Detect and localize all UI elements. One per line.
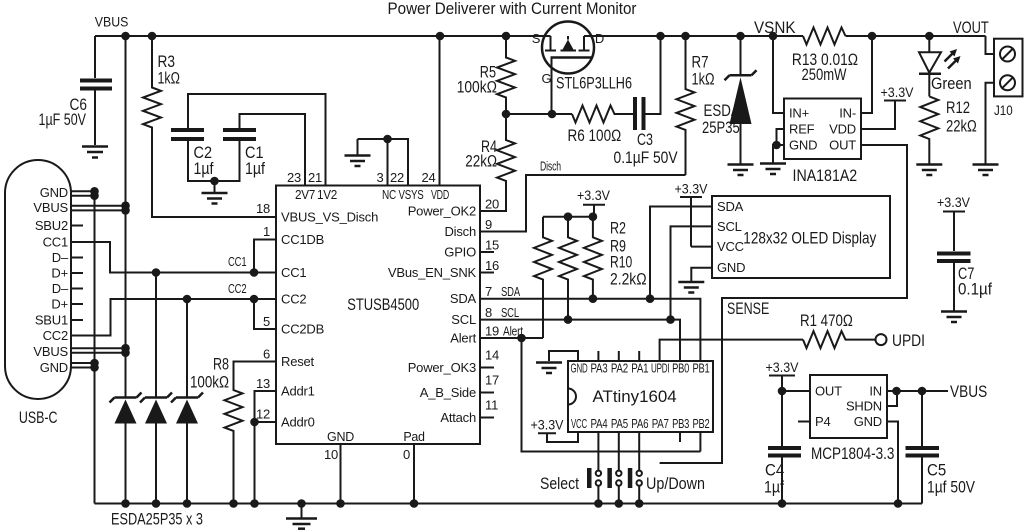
junction (670.5,319.6): [666, 315, 675, 324]
svg-text:VCC: VCC: [571, 417, 587, 431]
connector J10: [994, 39, 1023, 97]
junction (896.5,391): [892, 387, 901, 396]
connector J? USB-C body: [5, 160, 71, 399]
svg-text:2.2kΩ: 2.2kΩ: [610, 271, 647, 289]
wire ATtiny GND to ground: [549, 351, 578, 361]
junction (152,36): [148, 32, 157, 41]
wire OUT: [782, 390, 810, 392]
svg-text:15: 15: [485, 238, 499, 253]
junction (568,216.7): [564, 212, 573, 221]
junction (568,319.6): [564, 315, 573, 324]
svg-text:Pad: Pad: [403, 430, 425, 444]
junction (187,503.5): [183, 499, 192, 508]
wire pullup top: [543, 216, 594, 218]
svg-text:VBUS: VBUS: [95, 14, 129, 30]
junction (592.9,216.7): [589, 212, 598, 221]
svg-text:Power Deliverer with Current M: Power Deliverer with Current Monitor: [388, 0, 637, 18]
svg-text:Alert: Alert: [450, 331, 476, 346]
junction (872,36): [868, 32, 877, 41]
wire gate node: [506, 113, 572, 115]
svg-text:VBUS_VS_Disch: VBUS_VS_Disch: [281, 210, 378, 225]
svg-text:C5: C5: [927, 462, 946, 480]
svg-text:C4: C4: [765, 462, 784, 480]
junction (618.8,503.5): [615, 499, 624, 508]
LED D5 Green: [928, 36, 930, 52]
svg-text:CC2: CC2: [43, 328, 68, 343]
op-amp U? STUSB4500 box: [276, 186, 480, 445]
svg-text:R10: R10: [610, 254, 632, 272]
junction (660.5,36): [656, 32, 665, 41]
svg-text:+3.3V: +3.3V: [531, 417, 565, 433]
svg-text:CC1: CC1: [43, 235, 68, 250]
svg-text:24: 24: [421, 170, 435, 185]
junction (233.5,503.5): [229, 499, 238, 508]
svg-text:1kΩ: 1kΩ: [158, 70, 181, 88]
svg-text:Attach: Attach: [440, 410, 476, 425]
resistor R5: [497, 36, 515, 114]
junction VBUS pins: [121, 201, 130, 210]
svg-text:0.1µF 50V: 0.1µF 50V: [614, 149, 678, 167]
wire net CC2: [71, 299, 276, 336]
wire MCP GND: [887, 422, 898, 504]
diode D3 ESDA25P35 (CC2): [186, 299, 188, 398]
svg-text:P4: P4: [815, 414, 831, 429]
LED arrows: [945, 53, 954, 62]
svg-text:VBUS: VBUS: [950, 383, 987, 401]
resistor R12: [920, 96, 938, 163]
svg-text:VDD: VDD: [829, 122, 856, 137]
svg-text:STL6P3LLH6: STL6P3LLH6: [556, 75, 632, 93]
svg-text:+3.3V: +3.3V: [577, 187, 611, 203]
pin D+ stub: [71, 303, 83, 305]
svg-text:VBUS: VBUS: [33, 200, 68, 215]
junction (898,503.5): [894, 499, 903, 508]
svg-text:SBU2: SBU2: [35, 218, 68, 233]
svg-text:VSNK: VSNK: [754, 19, 796, 37]
capacitor C1: [240, 114, 306, 186]
wire CC2DB bracket: [254, 299, 276, 329]
svg-text:CC1DB: CC1DB: [281, 232, 324, 247]
svg-text:Select: Select: [540, 475, 579, 493]
junction (254,299): [250, 295, 259, 304]
capacitor C2: [188, 94, 326, 186]
svg-text:IN-: IN-: [839, 106, 856, 121]
junction (740.5,36): [736, 32, 745, 41]
pin D- stub: [71, 288, 83, 290]
resistor R2: [534, 217, 552, 338]
svg-text:REF: REF: [789, 122, 815, 137]
svg-text:VSYS: VSYS: [399, 188, 424, 202]
svg-text:16: 16: [485, 258, 499, 273]
ground (J10): [973, 163, 999, 166]
resistor R3: [143, 36, 276, 217]
wire SCL bus: [480, 320, 680, 361]
junction (552,114): [548, 110, 557, 119]
svg-text:D+: D+: [51, 266, 68, 281]
svg-text:GND: GND: [854, 414, 882, 429]
svg-text:14: 14: [485, 348, 499, 363]
wire VBUS top rail: [95, 35, 986, 37]
svg-text:7: 7: [485, 284, 492, 299]
pin 15 GPIO stub: [480, 251, 494, 253]
svg-text:128x32 OLED Display: 128x32 OLED Display: [743, 230, 877, 248]
svg-text:ESDA: ESDA: [704, 102, 740, 120]
svg-text:PA6: PA6: [631, 417, 648, 431]
transistor Q1 STL6P3LLH6: [542, 22, 594, 74]
svg-text:NC: NC: [382, 188, 396, 202]
terminal UPDI: [876, 334, 887, 345]
junction (187,299): [183, 295, 192, 304]
junction (125.5,210.4): [121, 206, 130, 215]
pin 22 VSYS: [358, 139, 409, 186]
resistor R7: [677, 36, 695, 175]
svg-text:PA3: PA3: [591, 362, 608, 376]
junction (773,36): [769, 32, 778, 41]
svg-text:CC2: CC2: [228, 281, 247, 296]
wire IN+ to VSNK: [773, 36, 784, 113]
svg-text:10: 10: [324, 447, 338, 462]
svg-text:ATtiny1604: ATtiny1604: [593, 388, 677, 406]
pin 11 Attach stub: [480, 417, 494, 419]
svg-text:Disch: Disch: [540, 159, 561, 174]
svg-text:1µF 50V: 1µF 50V: [39, 111, 87, 129]
svg-text:22kΩ: 22kΩ: [946, 118, 977, 136]
svg-text:PA7: PA7: [652, 417, 669, 431]
capacitor C7: [937, 254, 971, 262]
pin 0 Pad bottom: [413, 444, 415, 504]
svg-text:IN+: IN+: [789, 106, 809, 121]
svg-text:G: G: [542, 71, 552, 86]
svg-text:INA181A2: INA181A2: [793, 167, 858, 185]
svg-text:0.1µf: 0.1µf: [958, 281, 992, 299]
junction (685.5,36): [681, 32, 690, 41]
diode D2 ESDA25P35 (CC1): [155, 273, 157, 398]
wire OLED GND: [691, 268, 712, 281]
junction (254.5,503.5): [250, 499, 259, 508]
ground (INA GND): [760, 162, 786, 165]
svg-text:PA2: PA2: [611, 362, 628, 376]
resistor R9: [559, 217, 577, 320]
ground (ATtiny): [536, 361, 562, 364]
junction GND pins: [90, 187, 99, 196]
resistor R8: [225, 362, 277, 504]
svg-text:1µf 50V: 1µf 50V: [927, 479, 975, 497]
svg-text:+3.3V: +3.3V: [937, 194, 971, 210]
svg-text:CC1: CC1: [281, 265, 306, 280]
svg-text:VDD: VDD: [431, 188, 449, 202]
junction (922,391): [918, 387, 927, 396]
capacitor C6: [80, 81, 112, 89]
regulator U4 MCP1804-3.3 box: [810, 375, 887, 438]
wire net CC1: [71, 242, 276, 273]
svg-text:1: 1: [263, 224, 270, 239]
resistor R4: [480, 114, 515, 211]
svg-text:MCP1804-3.3: MCP1804-3.3: [811, 445, 894, 463]
svg-text:UPDI: UPDI: [651, 362, 670, 376]
connector pins USB-C: GND top (double): [71, 191, 95, 195]
ground (OLED): [678, 281, 704, 284]
pin 24 VDD wire: [439, 36, 441, 186]
wire UPDI net: [660, 340, 803, 361]
svg-text:25P35: 25P35: [702, 119, 740, 137]
ground (rail): [301, 504, 303, 518]
svg-text:ESDA25P35 x 3: ESDA25P35 x 3: [111, 511, 203, 529]
op-amp U3 ATtiny1604 box: [568, 361, 713, 432]
svg-text:D–: D–: [52, 250, 69, 265]
svg-text:Addr0: Addr0: [281, 415, 315, 430]
svg-text:SBU1: SBU1: [35, 313, 68, 328]
switch SW1 Select (PA4): [597, 432, 599, 504]
junction (782,391): [778, 387, 787, 396]
svg-text:R7: R7: [692, 54, 709, 72]
svg-text:18: 18: [256, 201, 270, 216]
junction (254,272.5): [250, 268, 259, 277]
pin D- stub: [71, 257, 83, 259]
svg-text:D–: D–: [52, 281, 69, 296]
ground (D4): [728, 163, 754, 166]
wire IN- to rail: [861, 36, 872, 113]
svg-text:17: 17: [485, 373, 499, 388]
svg-text:D: D: [595, 31, 604, 46]
power +3.3V (INA VDD): [861, 101, 906, 130]
svg-text:5: 5: [263, 314, 270, 329]
svg-text:S: S: [532, 31, 541, 46]
pin 3 NC stub: [387, 139, 389, 186]
svg-text:Power_OK3: Power_OK3: [408, 360, 476, 375]
pin 16 VBus_EN_SNK stub: [480, 272, 494, 274]
junction (639.2,503.5): [635, 499, 644, 508]
svg-text:13: 13: [256, 376, 270, 391]
pin VBUS bottom (double): [71, 348, 126, 353]
pin PB3 stub: [679, 432, 681, 442]
capacitor C4: [781, 391, 783, 446]
resistor R1: [803, 331, 876, 348]
svg-text:+3.3V: +3.3V: [881, 84, 915, 100]
junction (340.5,503.5): [336, 499, 345, 508]
pin SBU2 stub: [71, 225, 83, 227]
resistor R10: [584, 217, 602, 299]
svg-text:6: 6: [263, 347, 270, 362]
svg-text:R6 100Ω: R6 100Ω: [568, 127, 622, 145]
wire J10 pin1: [986, 36, 995, 54]
junction Addr: [250, 418, 259, 427]
pin 10 GND bottom: [340, 444, 342, 504]
junction (414,503.5): [410, 499, 419, 508]
junction (650,298.7): [646, 294, 655, 303]
ground (R12): [916, 163, 942, 166]
svg-text:1µf: 1µf: [245, 160, 265, 178]
pin VBUS top (double): [71, 206, 126, 211]
svg-text:SDA: SDA: [450, 291, 477, 306]
svg-text:PB2: PB2: [693, 417, 710, 431]
svg-text:20: 20: [485, 197, 499, 212]
svg-text:3: 3: [376, 170, 383, 185]
svg-text:GND: GND: [571, 362, 588, 376]
svg-text:VBus_EN_SNK: VBus_EN_SNK: [388, 265, 477, 280]
pin PA2 stub: [618, 351, 620, 361]
pin 17 A_B_Side stub: [480, 392, 494, 394]
resistor R6: [572, 106, 634, 123]
svg-text:1V2: 1V2: [317, 188, 337, 202]
svg-text:PA4: PA4: [591, 417, 608, 431]
svg-text:GND: GND: [40, 360, 68, 375]
junction (94.5,195.7): [90, 191, 99, 200]
ground (C1/C2): [214, 181, 216, 192]
svg-text:SCL: SCL: [717, 219, 742, 234]
svg-text:1µf: 1µf: [194, 160, 214, 178]
svg-text:2V7: 2V7: [295, 188, 315, 202]
svg-text:22kΩ: 22kΩ: [465, 153, 497, 171]
svg-text:100kΩ: 100kΩ: [457, 79, 497, 97]
wire VBUS net vertical: [125, 36, 127, 398]
svg-text:J10: J10: [994, 102, 1013, 118]
wire Addr1 to Addr0: [255, 391, 277, 422]
svg-text:Up/Down: Up/Down: [646, 475, 705, 493]
svg-text:R12: R12: [946, 99, 970, 117]
svg-text:+3.3V: +3.3V: [675, 181, 709, 197]
wire OLED SCL: [671, 226, 713, 319]
svg-text:Addr1: Addr1: [281, 384, 315, 399]
svg-text:CC1: CC1: [228, 254, 247, 269]
svg-text:R8: R8: [213, 356, 229, 374]
svg-text:12: 12: [256, 407, 270, 422]
pin 14 Power_OK3 stub: [480, 367, 494, 369]
svg-text:+3.3V: +3.3V: [766, 359, 800, 375]
ground (C7): [941, 310, 967, 313]
svg-text:SDA: SDA: [717, 199, 744, 214]
wire Disch net: [480, 175, 686, 232]
svg-text:VBUS: VBUS: [33, 344, 68, 359]
svg-text:GND: GND: [327, 430, 354, 444]
junction pin3/22: [383, 135, 392, 144]
junction (782,503.5): [778, 499, 787, 508]
svg-text:SCL: SCL: [451, 312, 476, 327]
svg-text:GND: GND: [789, 138, 817, 153]
op-amp U2 INA181A2 box: [784, 99, 861, 160]
junction CC nets: [152, 268, 161, 277]
wire J10 pin2 to ground: [986, 83, 995, 164]
svg-text:8: 8: [485, 305, 492, 320]
junction (125.5,348.2): [121, 344, 130, 353]
svg-text:R2: R2: [610, 220, 626, 238]
wire C6 branch: [94, 36, 96, 78]
junction (301.5,503.5): [297, 499, 306, 508]
svg-text:23: 23: [287, 170, 301, 185]
svg-text:PB3: PB3: [672, 417, 689, 431]
wire SHDN tie: [887, 391, 897, 406]
junction rail dots: [121, 499, 130, 508]
svg-text:SCL: SCL: [501, 305, 519, 320]
svg-text:Disch: Disch: [444, 224, 476, 239]
wire Alert bus: [480, 337, 543, 339]
wire bottom GND rail: [95, 503, 923, 505]
junction (440,36): [436, 32, 445, 41]
svg-text:11: 11: [485, 398, 498, 413]
ground (C6): [82, 145, 108, 148]
svg-text:0: 0: [403, 447, 410, 462]
wire GND net vertical: [94, 192, 96, 504]
pin GND bottom (double): [71, 363, 95, 368]
svg-text:SHDN: SHDN: [846, 399, 882, 414]
svg-text:Power_OK2: Power_OK2: [408, 204, 476, 219]
svg-text:CC2DB: CC2DB: [281, 322, 324, 337]
ground (NC/VSYS): [357, 139, 359, 155]
svg-text:CC2: CC2: [281, 292, 306, 307]
svg-text:SDA: SDA: [501, 284, 520, 299]
svg-text:1µf: 1µf: [764, 479, 784, 497]
svg-text:250mW: 250mW: [802, 66, 847, 84]
svg-text:STUSB4500: STUSB4500: [347, 296, 419, 314]
pin P4 stub: [798, 421, 810, 423]
svg-text:GPIO: GPIO: [444, 245, 476, 260]
svg-text:GND: GND: [717, 260, 745, 275]
wire OLED SDA: [650, 207, 712, 299]
svg-text:SENSE: SENSE: [727, 300, 769, 318]
wire SDA bus: [480, 299, 700, 361]
diode D1 ESDA25P35 (VBUS): [110, 393, 142, 403]
wire CC1DB bracket: [254, 240, 276, 273]
resistor R13 shunt: [803, 28, 846, 45]
svg-text:Reset: Reset: [281, 354, 315, 369]
svg-text:PB0: PB0: [672, 362, 689, 376]
wire REF to GND: [777, 129, 785, 145]
svg-text:R3: R3: [158, 53, 176, 71]
pin PA3 stub: [597, 351, 599, 361]
svg-text:R1 470Ω: R1 470Ω: [800, 312, 853, 330]
svg-text:OUT: OUT: [815, 384, 842, 399]
svg-text:D+: D+: [51, 297, 68, 312]
display 128x32 OLED box: [712, 196, 890, 278]
junction (156,503.5): [152, 499, 161, 508]
capacitor C5: [921, 391, 923, 446]
svg-text:21: 21: [308, 170, 322, 185]
junction (521.5,338): [517, 334, 526, 343]
junction (776.5,145): [772, 141, 781, 150]
wire IN to VBUS: [887, 390, 948, 392]
junction R5/R4/gate: [502, 110, 511, 119]
wire Addr0 to rail: [255, 422, 277, 504]
svg-text:100kΩ: 100kΩ: [190, 374, 229, 392]
svg-text:UPDI: UPDI: [892, 332, 925, 350]
svg-text:GND: GND: [40, 185, 68, 200]
svg-text:Green: Green: [931, 75, 972, 93]
svg-text:9: 9: [485, 217, 492, 232]
wire Alert to PB2: [522, 338, 701, 452]
svg-text:A_B_Side: A_B_Side: [420, 385, 476, 400]
svg-text:22: 22: [390, 170, 404, 185]
switch SW3 Up/Down (PA6): [638, 432, 640, 504]
capacitor C3: [635, 97, 644, 130]
wire GND to ground: [773, 145, 784, 163]
svg-text:C3: C3: [637, 131, 653, 149]
pin D+ stub: [71, 272, 83, 274]
diode D4 ESDA25P35: [740, 36, 742, 74]
svg-text:19: 19: [485, 324, 499, 339]
svg-text:1kΩ: 1kΩ: [692, 71, 715, 89]
junction (929.3,36): [925, 32, 934, 41]
switch SW2 (PA5): [618, 432, 620, 504]
junction (125.5,352.7): [121, 348, 130, 357]
junction (94.5,367.5): [90, 363, 99, 372]
pin SBU1 stub: [71, 319, 83, 321]
svg-text:USB-C: USB-C: [19, 409, 58, 427]
junction C1/C2 ground: [210, 177, 219, 186]
svg-text:PB1: PB1: [693, 362, 710, 376]
junction on VBUS rail: [121, 32, 130, 41]
svg-text:IN: IN: [869, 384, 882, 399]
svg-text:VCC: VCC: [717, 239, 744, 254]
junction (592.9,298.7): [589, 294, 598, 303]
